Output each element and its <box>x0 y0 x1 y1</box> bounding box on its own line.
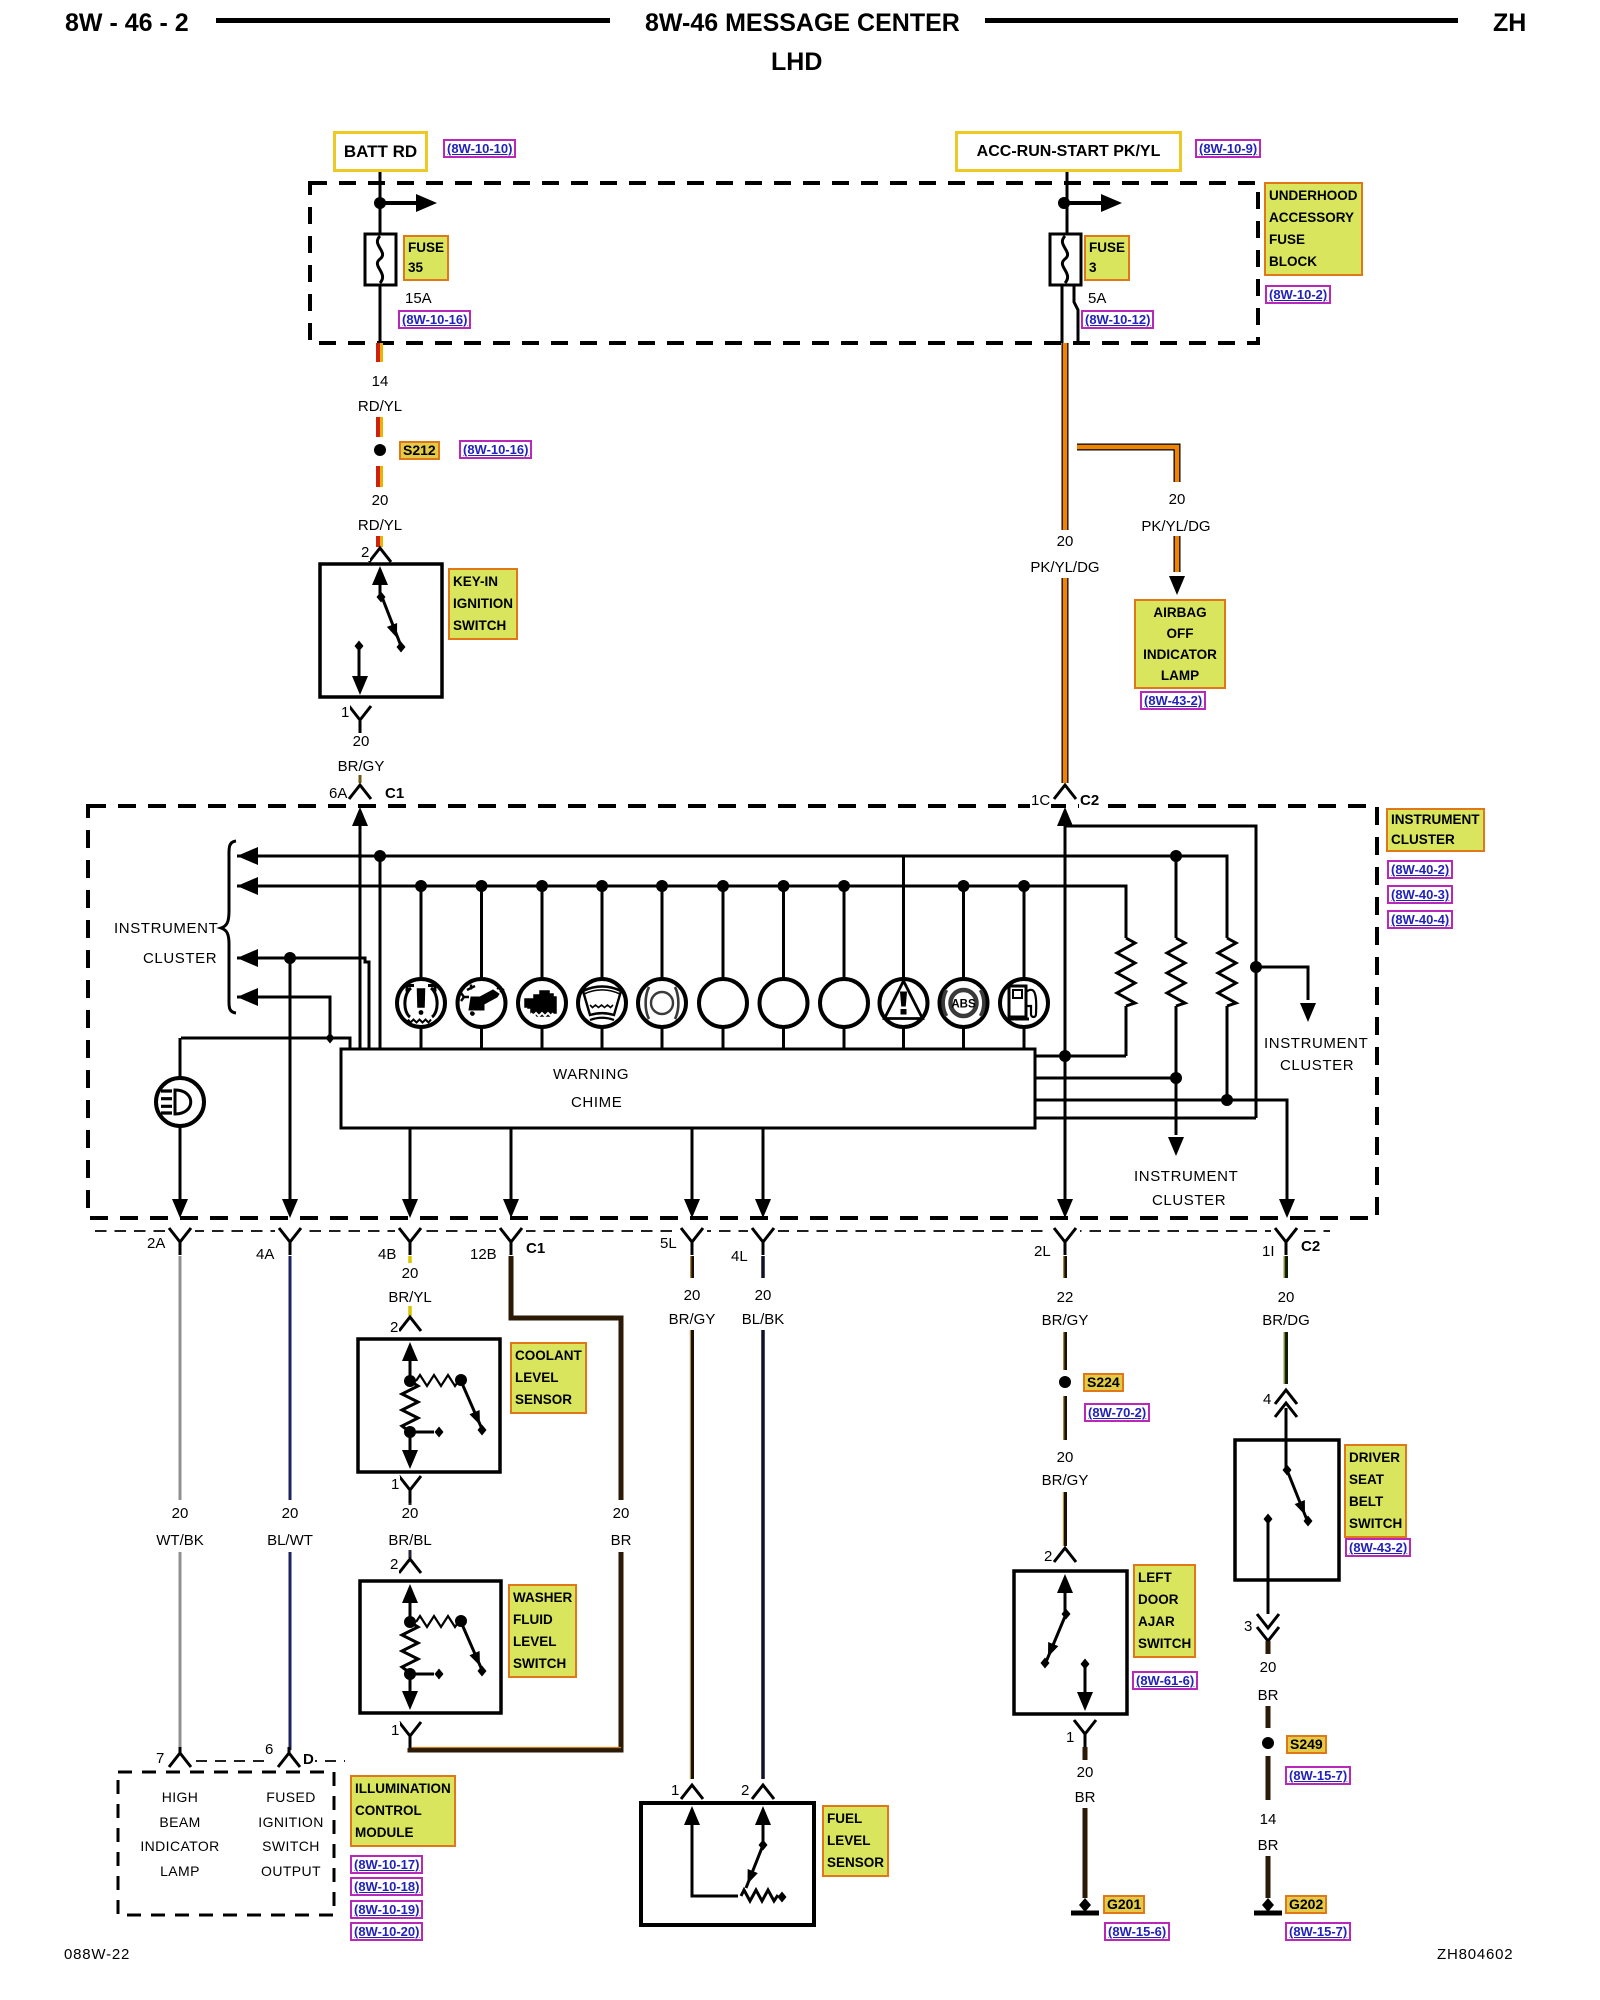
label DRIVER SEAT BELT SWITCH <box>1344 1444 1407 1538</box>
illumination control module (dashed box) <box>118 1772 334 1915</box>
label instrument cluster left <box>114 920 218 937</box>
label AIRBAG OFF INDICATOR LAMP <box>1134 599 1226 689</box>
lamp L10 ABS <box>940 979 988 1027</box>
wire pin3 <box>1267 1519 1270 1614</box>
wire BR/GY 5L <box>690 1256 692 1779</box>
node L2 <box>476 880 488 892</box>
labels wire RD/YL <box>370 373 391 390</box>
wire high beam top <box>179 1038 182 1078</box>
connector pin 2 washer <box>399 1559 421 1573</box>
label LEFT DOOR AJAR SWITCH <box>1133 1564 1196 1658</box>
node: acc junction <box>1058 197 1070 209</box>
bus line 3 <box>237 958 369 1049</box>
connector pin 3 seat belt (double) <box>1257 1614 1279 1641</box>
lamp L9 warning triangle <box>880 979 928 1027</box>
wire line1 to chime <box>379 856 382 1049</box>
wire L5 stub top <box>661 886 664 979</box>
wire L1 stub top <box>420 886 423 979</box>
wire chime to 5L <box>691 1128 694 1202</box>
driver seat belt switch S4 <box>1235 1440 1339 1580</box>
label WASHER FLUID LEVEL SWITCH <box>508 1584 577 1678</box>
wire L9 stub to line1 <box>902 856 905 979</box>
connector 12B C1 <box>500 1228 522 1255</box>
wire branch arrow right <box>380 201 418 205</box>
connector pin 4 seat belt (double) <box>1275 1390 1297 1417</box>
pin labels bottom edge <box>146 1235 166 1252</box>
splice S249 <box>1262 1737 1274 1749</box>
lamp L5 brake <box>638 979 686 1027</box>
connector 5L <box>681 1228 703 1255</box>
lamp L11 fuel <box>1000 979 1048 1027</box>
connector pin 1 coolant <box>399 1476 421 1503</box>
wire RD/YL segments <box>378 343 382 547</box>
lamp L2 oil <box>458 979 506 1027</box>
wire BR thick washer to 12B <box>410 1256 621 1750</box>
connector 1I C2 <box>1275 1228 1297 1255</box>
label instrument cluster bottom <box>1134 1168 1238 1185</box>
wire 4A vertical <box>289 958 292 1202</box>
label FUEL LEVEL SENSOR <box>822 1805 889 1877</box>
wire L4 stub bottom <box>601 1027 604 1049</box>
coolant level sensor B1 <box>358 1339 500 1472</box>
label warning chime <box>553 1066 629 1083</box>
connector face line (bottom) <box>95 1230 1330 1232</box>
node R2 bottom <box>1170 1072 1182 1084</box>
wire L3 stub bottom <box>541 1027 544 1049</box>
node L1 <box>415 880 427 892</box>
label ILLUMINATION CONTROL MODULE <box>350 1775 456 1847</box>
lamp L4 washer fluid <box>578 979 626 1027</box>
labels 5L wire <box>682 1287 703 1304</box>
node line4-highbeam <box>326 1033 335 1044</box>
washer fluid level switch B2 <box>360 1581 501 1713</box>
node C2-chime <box>1059 1050 1071 1062</box>
label FUSE 35 <box>403 235 449 281</box>
resistor R3 <box>1218 938 1236 1100</box>
lamp L6 spare <box>699 979 747 1027</box>
wire chime to R2 <box>1035 1077 1176 1080</box>
wire high beam feed <box>181 1038 350 1049</box>
connector pin 6 D <box>278 1747 300 1767</box>
svg-text:ABS: ABS <box>951 999 976 1011</box>
label FUSE 3 <box>1084 235 1130 281</box>
fuse F35 <box>365 234 396 285</box>
underhood accessory fuse block (dashed box) <box>310 183 1258 343</box>
brace (instrument cluster) <box>221 841 236 1013</box>
node: batt junction <box>374 197 386 209</box>
label FUSED IGNITION SWITCH OUTPUT <box>258 1785 323 1883</box>
connector pin 2 (key-in ignition switch) <box>369 548 391 562</box>
wire L10 stub top <box>962 886 965 979</box>
bus line 4 <box>237 997 330 1038</box>
wire PK/YL/DG main <box>1062 343 1069 783</box>
wire L4 stub top <box>601 886 604 979</box>
wire branch arrow right <box>1064 201 1103 205</box>
label instrument cluster right-mid <box>1264 1035 1368 1052</box>
connector pin 1 fuel <box>681 1785 703 1799</box>
label COOLANT LEVEL SENSOR <box>510 1342 587 1414</box>
connector face line ILM <box>196 1760 345 1762</box>
footer <box>64 1946 130 1963</box>
labels 4B wire <box>400 1265 421 1282</box>
wire pin4 to switch <box>1285 1408 1288 1470</box>
wire BR to S249 to G202 <box>1266 1641 1271 1898</box>
switch contacts and blade <box>352 566 406 695</box>
node L3 <box>536 880 548 892</box>
wire L3 stub top <box>541 886 544 979</box>
arrow to airbag off indicator lamp <box>1169 576 1185 595</box>
node ACC-RUN-START <box>955 131 1182 172</box>
lamp L7 spare <box>760 979 808 1027</box>
node L5 <box>656 880 668 892</box>
pins fuel sensor <box>670 1782 680 1799</box>
wire fuse3 exit (double lead) <box>1062 285 1078 343</box>
left door ajar switch S3 <box>1014 1571 1127 1714</box>
labels BR thick wire <box>611 1505 632 1522</box>
labels 2L wire <box>1055 1289 1076 1306</box>
wire L11 stub top <box>1023 886 1026 979</box>
label HIGH BEAM INDICATOR LAMP <box>140 1785 219 1883</box>
labels G201 wire <box>1075 1764 1096 1781</box>
wire chime to R3 to 1I <box>1035 1100 1287 1202</box>
wire 1C C2 into cluster <box>1035 824 1256 1202</box>
label UNDERHOOD ACCESSORY FUSE BLOCK <box>1264 182 1363 276</box>
splice S212 <box>374 444 386 456</box>
bus line 1 <box>237 856 1227 938</box>
fuse F3 <box>1050 234 1081 285</box>
wire BL/WT <box>289 1256 292 1750</box>
lamp L3 check engine <box>518 979 566 1027</box>
fuel level sensor B3 <box>641 1803 814 1925</box>
wire PK/YL/DG airbag branch <box>1077 447 1177 572</box>
wire L2 stub top <box>480 886 483 979</box>
wire BR/GY 2L <box>1063 1256 1065 1546</box>
wire chime to 4L <box>762 1128 765 1202</box>
wire L1 stub bottom <box>420 1027 423 1049</box>
wire BR to G201 <box>1083 1747 1088 1898</box>
resistor R2 <box>1167 856 1185 1135</box>
lamp L8 spare <box>820 979 868 1027</box>
lamp L1 tire pressure <box>397 979 445 1027</box>
wire BATT RD into fuse block <box>379 172 382 234</box>
connector 2L <box>1054 1228 1076 1255</box>
wire chime to 4B <box>409 1128 412 1202</box>
wire to right instrument cluster arrow <box>1256 967 1308 1000</box>
labels S249 wire <box>1258 1659 1279 1676</box>
connector pin 1 (key-in) <box>349 706 371 733</box>
node line1-chime <box>374 850 386 862</box>
ground G201 <box>1071 1898 1099 1913</box>
labels 4L wire <box>753 1287 774 1304</box>
wire L2 stub bottom <box>480 1027 483 1049</box>
high beam icon <box>161 1090 191 1114</box>
ground G202 <box>1254 1898 1282 1913</box>
labels 2A wire <box>170 1505 191 1522</box>
wire fuse35 to block edge <box>379 285 382 343</box>
wire L5 stub bottom <box>661 1027 664 1049</box>
resistor R1 <box>1117 938 1135 1056</box>
wire chime to R1 <box>1035 1055 1126 1058</box>
bus line 2 <box>237 886 1126 938</box>
wire BL/BK 4L <box>761 1256 765 1779</box>
connector pin 2 coolant <box>399 1317 421 1331</box>
wire BR/DG 1I <box>1284 1256 1286 1384</box>
wire WT/BK <box>179 1256 182 1750</box>
labels wire PK/YL/DG right branch <box>1167 491 1188 508</box>
wire ACC into fuse block <box>1066 172 1069 234</box>
labels 4A wire <box>280 1505 301 1522</box>
connector 2A <box>169 1228 191 1255</box>
wire BR/BL <box>409 1503 412 1558</box>
connector 4B <box>399 1228 421 1255</box>
connector pin 2 door ajar <box>1054 1548 1076 1562</box>
node right branch <box>1250 961 1262 973</box>
label INSTRUMENT CLUSTER (right tag) <box>1386 808 1485 852</box>
node BATT RD <box>333 131 428 172</box>
splice S224 <box>1059 1376 1071 1388</box>
wire chime to 12B <box>510 1128 513 1202</box>
connector 4L <box>752 1228 774 1255</box>
node L4 <box>596 880 608 892</box>
connector pin 1 door ajar <box>1074 1720 1096 1747</box>
labels 1I wire <box>1276 1289 1297 1306</box>
label KEY-IN IGNITION SWITCH <box>448 568 518 640</box>
wire BR/GY key-in to C1 <box>359 733 362 783</box>
arrow instrument cluster bottom <box>1168 1137 1184 1156</box>
labels wire PK/YL/DG left <box>1055 533 1076 550</box>
connector 6A C1 <box>349 785 371 799</box>
wire high beam to 2A <box>179 1126 182 1202</box>
wire 6A C1 into cluster <box>359 824 362 1049</box>
connector pin 7 <box>169 1747 191 1767</box>
connector pin 1 washer <box>399 1722 421 1749</box>
node line3-4A <box>284 952 296 964</box>
wire BR/YL stubs <box>408 1256 412 1316</box>
connector 4A <box>279 1228 301 1255</box>
connector 1C C2 <box>1054 785 1076 799</box>
connector pin 2 fuel <box>752 1785 774 1799</box>
high beam indicator lamp <box>156 1078 204 1126</box>
